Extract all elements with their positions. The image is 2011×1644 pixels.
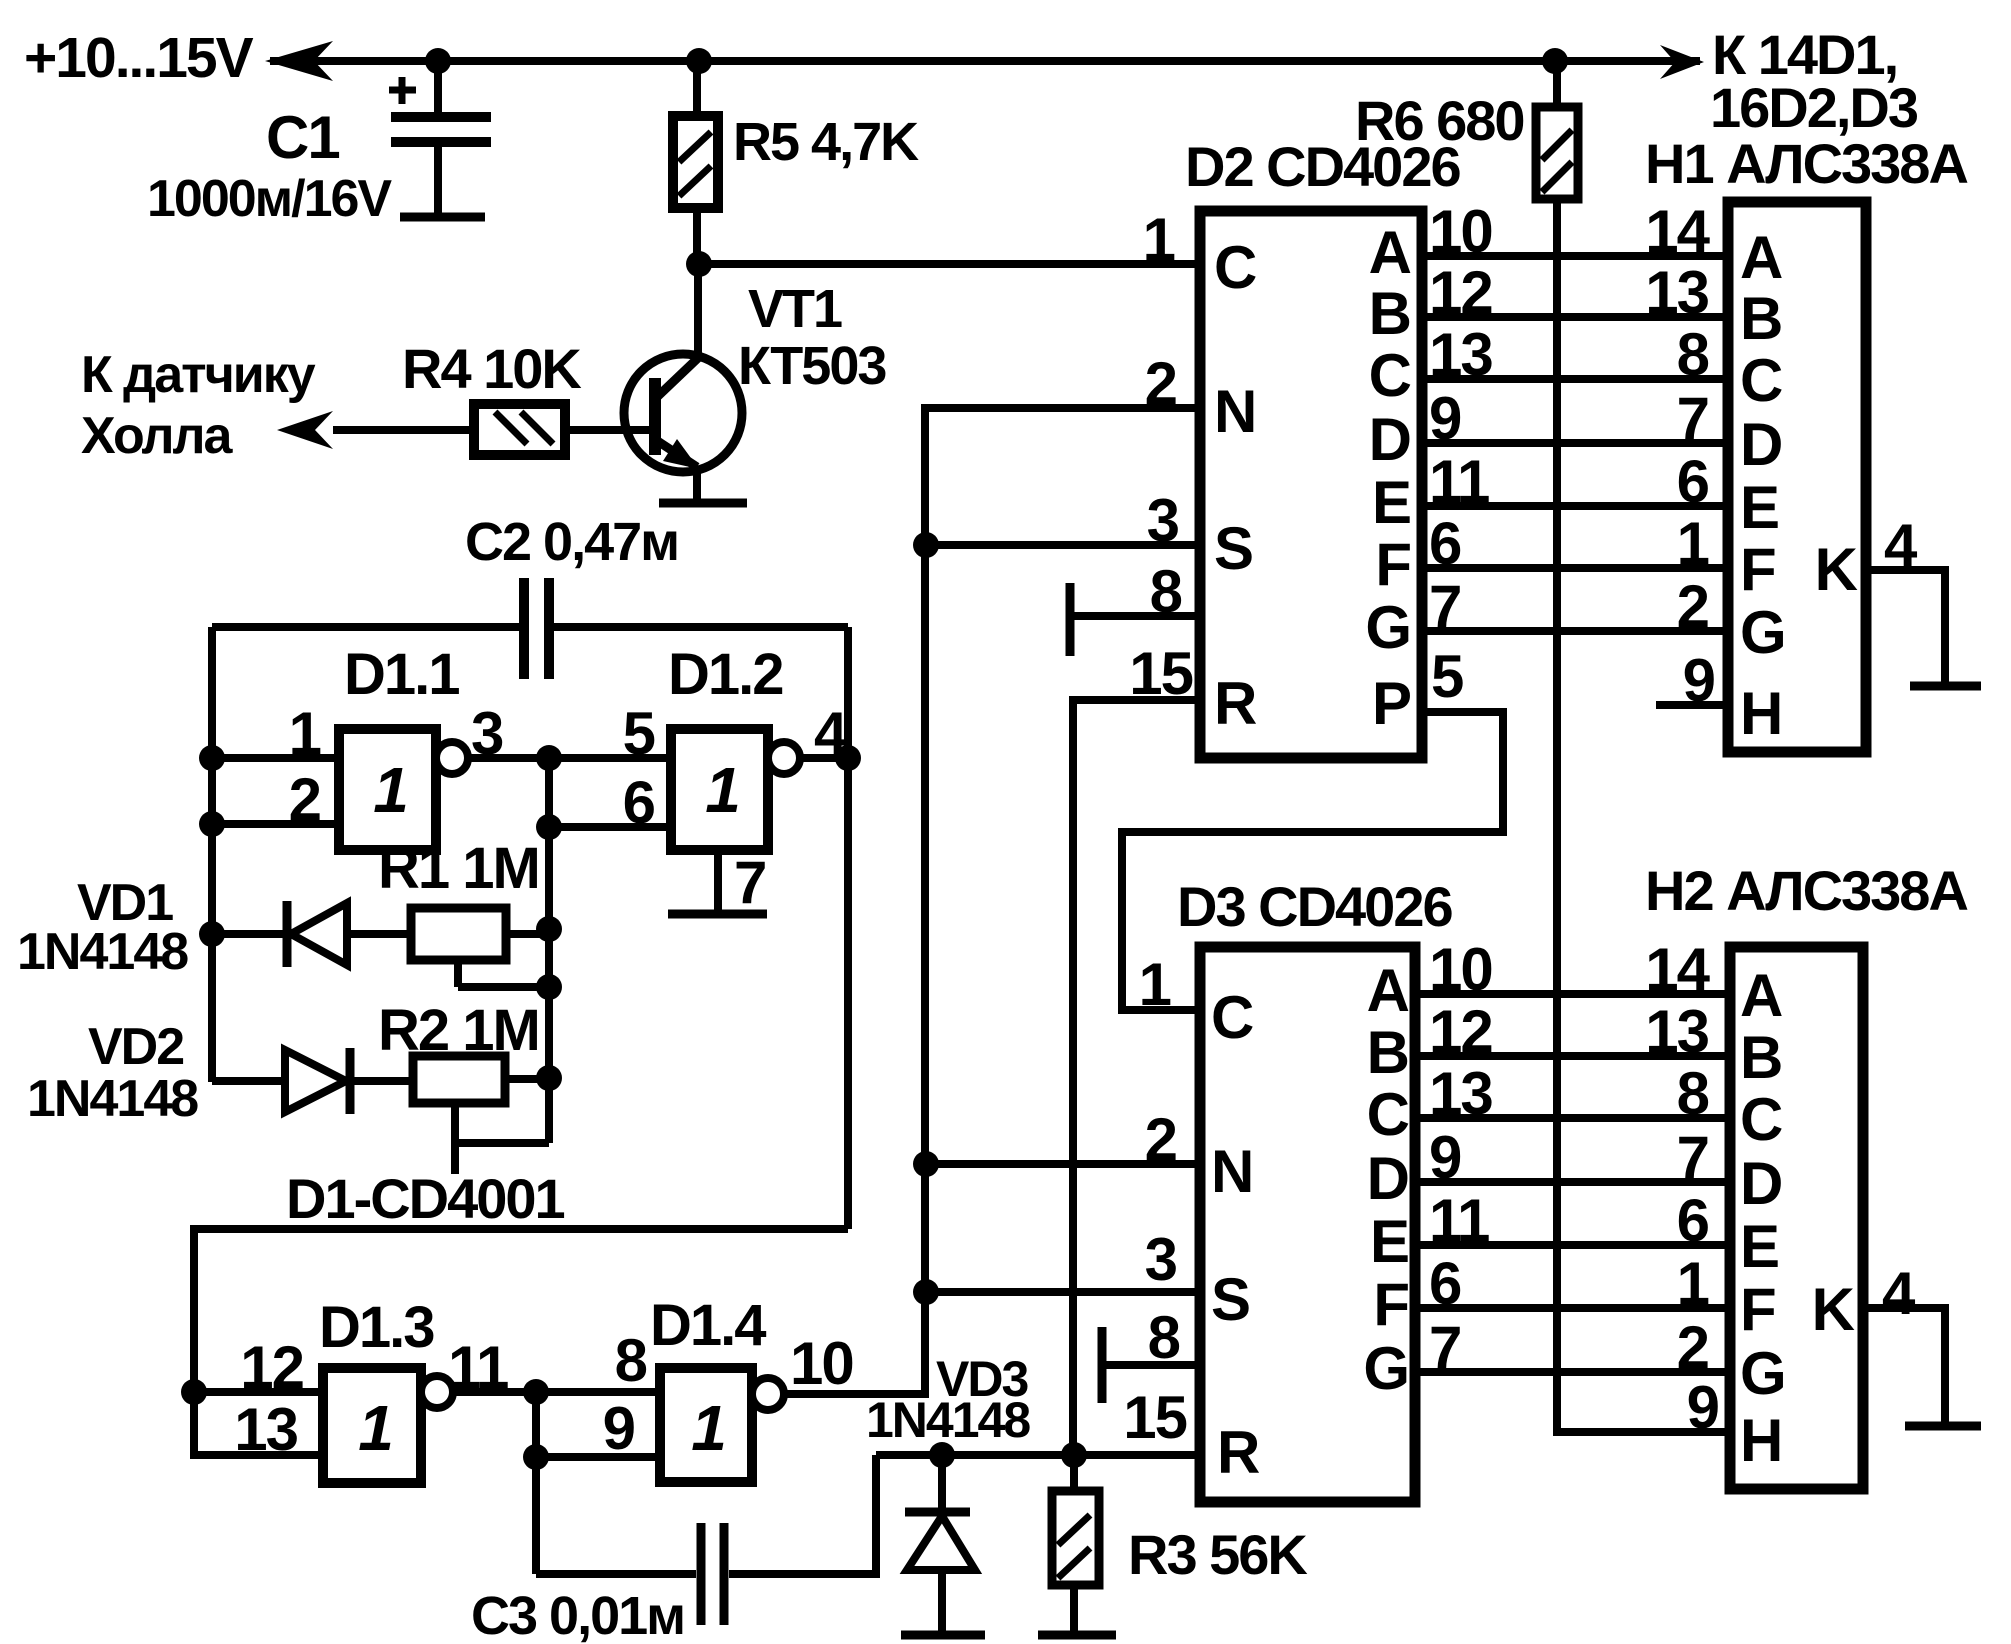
svg-text:3: 3 — [1145, 1226, 1177, 1293]
svg-text:16D2,D3: 16D2,D3 — [1710, 76, 1918, 139]
junction VD1/left rail — [199, 921, 225, 947]
svg-text:D1.4: D1.4 — [650, 1293, 766, 1358]
svg-text:13: 13 — [1429, 321, 1492, 388]
svg-text:B: B — [1740, 1024, 1781, 1091]
svg-text:5: 5 — [1431, 643, 1463, 710]
svg-text:2: 2 — [1145, 1106, 1176, 1173]
svg-text:6: 6 — [1677, 1187, 1709, 1254]
svg-text:A: A — [1369, 219, 1411, 286]
junction pin2/left rail — [199, 811, 225, 837]
junction pin4/right rail — [835, 745, 861, 771]
wire D1.2 pin 6 — [549, 823, 671, 831]
wire oscillator top rail right — [554, 623, 848, 631]
svg-text:9: 9 — [1687, 1374, 1719, 1441]
svg-text:10: 10 — [1429, 936, 1492, 1003]
wire segment D D2 to H1 — [1422, 439, 1728, 447]
wire segment C D3 to H2 — [1415, 1114, 1730, 1122]
svg-text:H: H — [1740, 1407, 1781, 1474]
wire segment A D3 to H2 — [1415, 990, 1730, 998]
svg-text:G: G — [1740, 599, 1785, 666]
svg-text:C: C — [1369, 342, 1411, 409]
diode VD1 1N4148 — [283, 901, 292, 967]
wire R1 bottom tap — [454, 960, 462, 987]
junction R5/VT1 collector — [686, 251, 712, 277]
arrow right to K 14D1 — [1660, 45, 1704, 79]
svg-text:C1: C1 — [266, 104, 339, 171]
svg-text:2: 2 — [1145, 350, 1176, 417]
svg-text:R4 10K: R4 10K — [402, 337, 581, 400]
svg-text:КТ503: КТ503 — [738, 336, 886, 396]
wire reset R line — [876, 1451, 1200, 1459]
svg-text:2: 2 — [1677, 1314, 1708, 1381]
wire R5 junction to D2 pin C — [699, 260, 1200, 268]
svg-text:G: G — [1363, 1335, 1408, 1402]
wire R1 right lead — [506, 930, 549, 938]
junction R6/rail — [1542, 48, 1568, 74]
junction pin1/left rail — [199, 745, 225, 771]
svg-text:1000м/16V: 1000м/16V — [147, 170, 392, 228]
transistor VT1 KT503 — [624, 354, 742, 472]
svg-text:D: D — [1369, 406, 1410, 473]
svg-text:R3 56K: R3 56K — [1128, 1523, 1307, 1586]
wire +V power rail — [270, 57, 1700, 65]
svg-text:K: K — [1812, 1276, 1855, 1343]
svg-text:R5 4,7K: R5 4,7K — [733, 112, 919, 172]
svg-text:F: F — [1375, 531, 1410, 598]
svg-text:8: 8 — [1677, 321, 1709, 388]
wire segment D D3 to H2 — [1415, 1178, 1730, 1186]
wire D1.2 pin 5 — [549, 754, 671, 762]
svg-text:6: 6 — [623, 769, 655, 836]
wire D1.4 output to N/S rail — [784, 408, 1200, 1394]
svg-text:2: 2 — [289, 766, 320, 833]
svg-text:R2 1M: R2 1M — [378, 998, 539, 1063]
wire node11 down — [532, 1392, 540, 1574]
wire R2 bottom tap — [451, 1103, 459, 1174]
svg-text:9: 9 — [1429, 385, 1461, 452]
junction R2/node — [536, 1065, 562, 1091]
svg-text:1: 1 — [373, 754, 407, 826]
junction D1.3 pin12 — [181, 1379, 207, 1405]
svg-text:1: 1 — [358, 1392, 392, 1464]
wire D1.3 pin 13 — [194, 1392, 323, 1455]
diode VD3 1N4148 — [938, 1455, 946, 1510]
svg-text:15: 15 — [1129, 640, 1192, 707]
svg-text:15: 15 — [1123, 1384, 1186, 1451]
wire D3 S — [926, 1288, 1200, 1296]
diode VD2 1N4148 — [285, 1050, 346, 1112]
wire left rail to VD2 — [208, 1078, 216, 1082]
svg-text:1N4148: 1N4148 — [17, 923, 188, 981]
svg-text:4: 4 — [1884, 512, 1918, 579]
svg-text:C: C — [1367, 1081, 1409, 1148]
resistor R6 680 — [1553, 61, 1561, 107]
gate D1.4 (CD4001 inverter) — [660, 1368, 752, 1482]
svg-text:10: 10 — [1429, 198, 1492, 265]
wire D2 N from vertical — [926, 404, 1200, 412]
svg-text:N: N — [1211, 1138, 1252, 1205]
svg-text:3: 3 — [1147, 487, 1179, 554]
svg-text:C: C — [1214, 234, 1256, 301]
svg-text:1: 1 — [1677, 1250, 1709, 1317]
wire node11 to C3 left — [536, 1570, 696, 1578]
wire D1.1 output to node — [468, 754, 549, 762]
junction D3 S — [913, 1279, 939, 1305]
wire segment E D3 to H2 — [1415, 1241, 1730, 1249]
svg-text:7: 7 — [1429, 1314, 1460, 1381]
wire left rail to VD1 — [212, 930, 287, 938]
svg-text:1: 1 — [691, 1392, 725, 1464]
IC H2 ALS338A display — [1730, 947, 1863, 1489]
svg-text:8: 8 — [1677, 1060, 1709, 1127]
resistor R1 1M — [411, 908, 506, 960]
wire node3 vertical — [545, 758, 553, 1143]
svg-text:S: S — [1214, 515, 1252, 582]
svg-text:12: 12 — [1429, 259, 1492, 326]
svg-text:1: 1 — [1143, 206, 1175, 273]
svg-text:7: 7 — [1677, 385, 1708, 452]
junction node11 — [523, 1379, 549, 1405]
svg-text:R1 1M: R1 1M — [378, 836, 539, 901]
svg-text:D3 CD4026: D3 CD4026 — [1177, 875, 1452, 938]
gate D1.2 (CD4001 inverter) — [671, 729, 768, 850]
svg-text:B: B — [1367, 1019, 1408, 1086]
svg-text:11: 11 — [1429, 1187, 1489, 1254]
wire segment G D3 to H2 — [1415, 1368, 1730, 1376]
svg-text:D1.3: D1.3 — [319, 1295, 434, 1360]
svg-text:1: 1 — [705, 754, 739, 826]
svg-text:13: 13 — [1645, 259, 1708, 326]
wire D2 P to D3 C — [1122, 712, 1503, 1010]
svg-text:VD2: VD2 — [88, 1018, 183, 1076]
ground H2 — [1905, 1422, 1981, 1431]
svg-text:E: E — [1740, 1213, 1778, 1280]
svg-text:C: C — [1211, 984, 1253, 1051]
svg-text:D1.1: D1.1 — [344, 642, 459, 707]
svg-text:1: 1 — [1677, 510, 1709, 577]
wire D1.4 pin 9 — [536, 1453, 660, 1461]
svg-text:5: 5 — [623, 700, 655, 767]
svg-text:14: 14 — [1645, 198, 1710, 265]
resistor R2 1M — [413, 1056, 505, 1103]
svg-text:A: A — [1740, 962, 1782, 1029]
svg-text:Холла: Холла — [81, 407, 234, 465]
svg-text:C2 0,47м: C2 0,47м — [465, 512, 678, 572]
wire D1.3 output to D1.4 — [453, 1388, 660, 1396]
svg-text:F: F — [1373, 1271, 1408, 1338]
svg-text:9: 9 — [1429, 1124, 1461, 1191]
svg-text:C: C — [1740, 1086, 1782, 1153]
wire R2 right lead — [505, 1075, 549, 1083]
capacitor C1 1000м/16V — [434, 61, 442, 113]
svg-text:E: E — [1372, 469, 1410, 536]
wire R6 down to H2 pin H — [1557, 199, 1730, 1432]
gate D1.1 (CD4001 inverter) — [339, 729, 436, 850]
junction D1.4 pin9 — [523, 1444, 549, 1470]
svg-text:C: C — [1740, 347, 1782, 414]
svg-text:D: D — [1367, 1145, 1408, 1212]
svg-text:13: 13 — [1429, 1060, 1492, 1127]
stub D2 pin 8 — [1066, 583, 1075, 656]
svg-text:E: E — [1370, 1208, 1408, 1275]
svg-text:12: 12 — [1429, 998, 1492, 1065]
svg-text:10: 10 — [790, 1330, 853, 1397]
wire H1 K pin 4 to ground — [1866, 570, 1945, 682]
svg-text:H2 АЛС338А: H2 АЛС338А — [1645, 859, 1967, 922]
wire segment F D3 to H2 — [1415, 1304, 1730, 1312]
svg-text:6: 6 — [1429, 510, 1461, 577]
wire left vertical of oscillator — [208, 627, 216, 1082]
svg-text:12: 12 — [240, 1334, 303, 1401]
svg-text:VT1: VT1 — [748, 279, 842, 339]
wire D1.1 pin 1 — [212, 754, 339, 762]
svg-text:N: N — [1214, 378, 1255, 445]
svg-text:9: 9 — [1683, 647, 1715, 714]
svg-text:A: A — [1740, 224, 1782, 291]
wire segment E D2 to H1 — [1422, 502, 1728, 510]
wire right vertical D1.2 output down — [844, 627, 852, 1229]
ground H1 — [1910, 682, 1981, 691]
svg-text:8: 8 — [615, 1327, 647, 1394]
junction pin6/node — [536, 814, 562, 840]
junction D3 N — [913, 1151, 939, 1177]
svg-text:P: P — [1372, 670, 1410, 737]
svg-text:4: 4 — [1882, 1260, 1916, 1327]
junction R3/R line — [1061, 1442, 1087, 1468]
stub D3 pin 8 — [1098, 1327, 1107, 1403]
svg-text:R: R — [1217, 1419, 1260, 1486]
arrow to hall sensor — [277, 411, 333, 449]
junction node3 — [536, 745, 562, 771]
svg-text:+10...15V: +10...15V — [24, 26, 254, 90]
svg-text:1: 1 — [1139, 951, 1171, 1018]
wire D3 N — [926, 1160, 1200, 1168]
svg-text:11: 11 — [1429, 448, 1489, 515]
IC D3 CD4026 — [1200, 947, 1415, 1502]
svg-text:1: 1 — [289, 700, 321, 767]
junction C1/rail — [425, 48, 451, 74]
wire segment B D2 to H1 — [1422, 313, 1728, 321]
svg-text:7: 7 — [1677, 1124, 1708, 1191]
svg-text:D: D — [1740, 411, 1781, 478]
wire segment A D2 to H1 — [1422, 252, 1728, 260]
capacitor C3 0,01м — [697, 1523, 706, 1625]
svg-text:D2 CD4026: D2 CD4026 — [1185, 135, 1460, 198]
junction VD3/R line — [929, 1442, 955, 1468]
svg-text:9: 9 — [603, 1395, 635, 1462]
wire D1.1 pin 2 — [212, 820, 339, 828]
svg-text:13: 13 — [234, 1396, 297, 1463]
junction R1/node — [536, 916, 562, 942]
ground D1.2 pin 7 — [714, 850, 722, 910]
svg-text:E: E — [1740, 474, 1778, 541]
svg-text:7: 7 — [734, 849, 765, 916]
svg-text:D: D — [1740, 1150, 1781, 1217]
wire D1.2 output to D1.3 inputs — [194, 1229, 848, 1392]
svg-text:13: 13 — [1645, 998, 1708, 1065]
wire H2 K pin 4 to ground — [1863, 1308, 1945, 1422]
svg-text:14: 14 — [1645, 936, 1710, 1003]
wire C3 right to R line — [729, 1455, 876, 1574]
svg-text:C3 0,01м: C3 0,01м — [471, 1586, 684, 1644]
wire D1.2 output — [800, 754, 848, 762]
junction R1 tap/node — [536, 974, 562, 1000]
stub H1 pin H — [1656, 701, 1728, 709]
svg-text:D1.2: D1.2 — [668, 642, 783, 707]
wire oscillator top rail left — [212, 623, 519, 631]
IC H1 ALS338A display — [1728, 202, 1866, 752]
svg-text:B: B — [1740, 285, 1781, 352]
svg-text:К датчику: К датчику — [81, 346, 316, 404]
svg-text:8: 8 — [1150, 558, 1182, 625]
resistor R4 10K — [333, 426, 474, 434]
junction R5/rail — [686, 48, 712, 74]
svg-text:6: 6 — [1677, 448, 1709, 515]
svg-text:F: F — [1740, 536, 1775, 603]
svg-text:A: A — [1367, 957, 1409, 1024]
svg-text:B: B — [1369, 280, 1410, 347]
svg-text:6: 6 — [1429, 1250, 1461, 1317]
wire D1.3 pin 12 — [194, 1388, 323, 1396]
IC D2 CD4026 — [1200, 211, 1422, 758]
capacitor C2 0,47м — [519, 578, 529, 679]
resistor R3 56K — [1070, 1455, 1078, 1491]
wire D2 S — [926, 541, 1200, 549]
arrow left to +10...15V — [265, 41, 333, 81]
wire segment G D2 to H1 — [1422, 627, 1728, 635]
svg-text:S: S — [1211, 1266, 1249, 1333]
svg-text:8: 8 — [1148, 1304, 1180, 1371]
svg-text:R: R — [1214, 670, 1257, 737]
svg-text:G: G — [1740, 1340, 1785, 1407]
svg-text:H: H — [1740, 680, 1781, 747]
wire segment F D2 to H1 — [1422, 564, 1728, 572]
svg-text:D1-CD4001: D1-CD4001 — [286, 1167, 565, 1230]
svg-text:7: 7 — [1429, 573, 1460, 640]
junction D2 S — [913, 532, 939, 558]
svg-text:F: F — [1740, 1276, 1775, 1343]
svg-text:2: 2 — [1677, 573, 1708, 640]
wire segment B D3 to H2 — [1415, 1052, 1730, 1060]
svg-text:1N4148: 1N4148 — [27, 1070, 198, 1128]
wire reset vertical to D2 R — [1073, 700, 1200, 1455]
gate D1.3 (CD4001 inverter) — [323, 1368, 421, 1483]
svg-text:1N4148: 1N4148 — [866, 1392, 1030, 1448]
svg-text:H1 АЛС338А: H1 АЛС338А — [1645, 132, 1967, 195]
wire segment C D2 to H1 — [1422, 375, 1728, 383]
svg-text:G: G — [1365, 594, 1410, 661]
svg-text:K: K — [1815, 536, 1858, 603]
resistor R5 4,7K — [693, 61, 701, 116]
